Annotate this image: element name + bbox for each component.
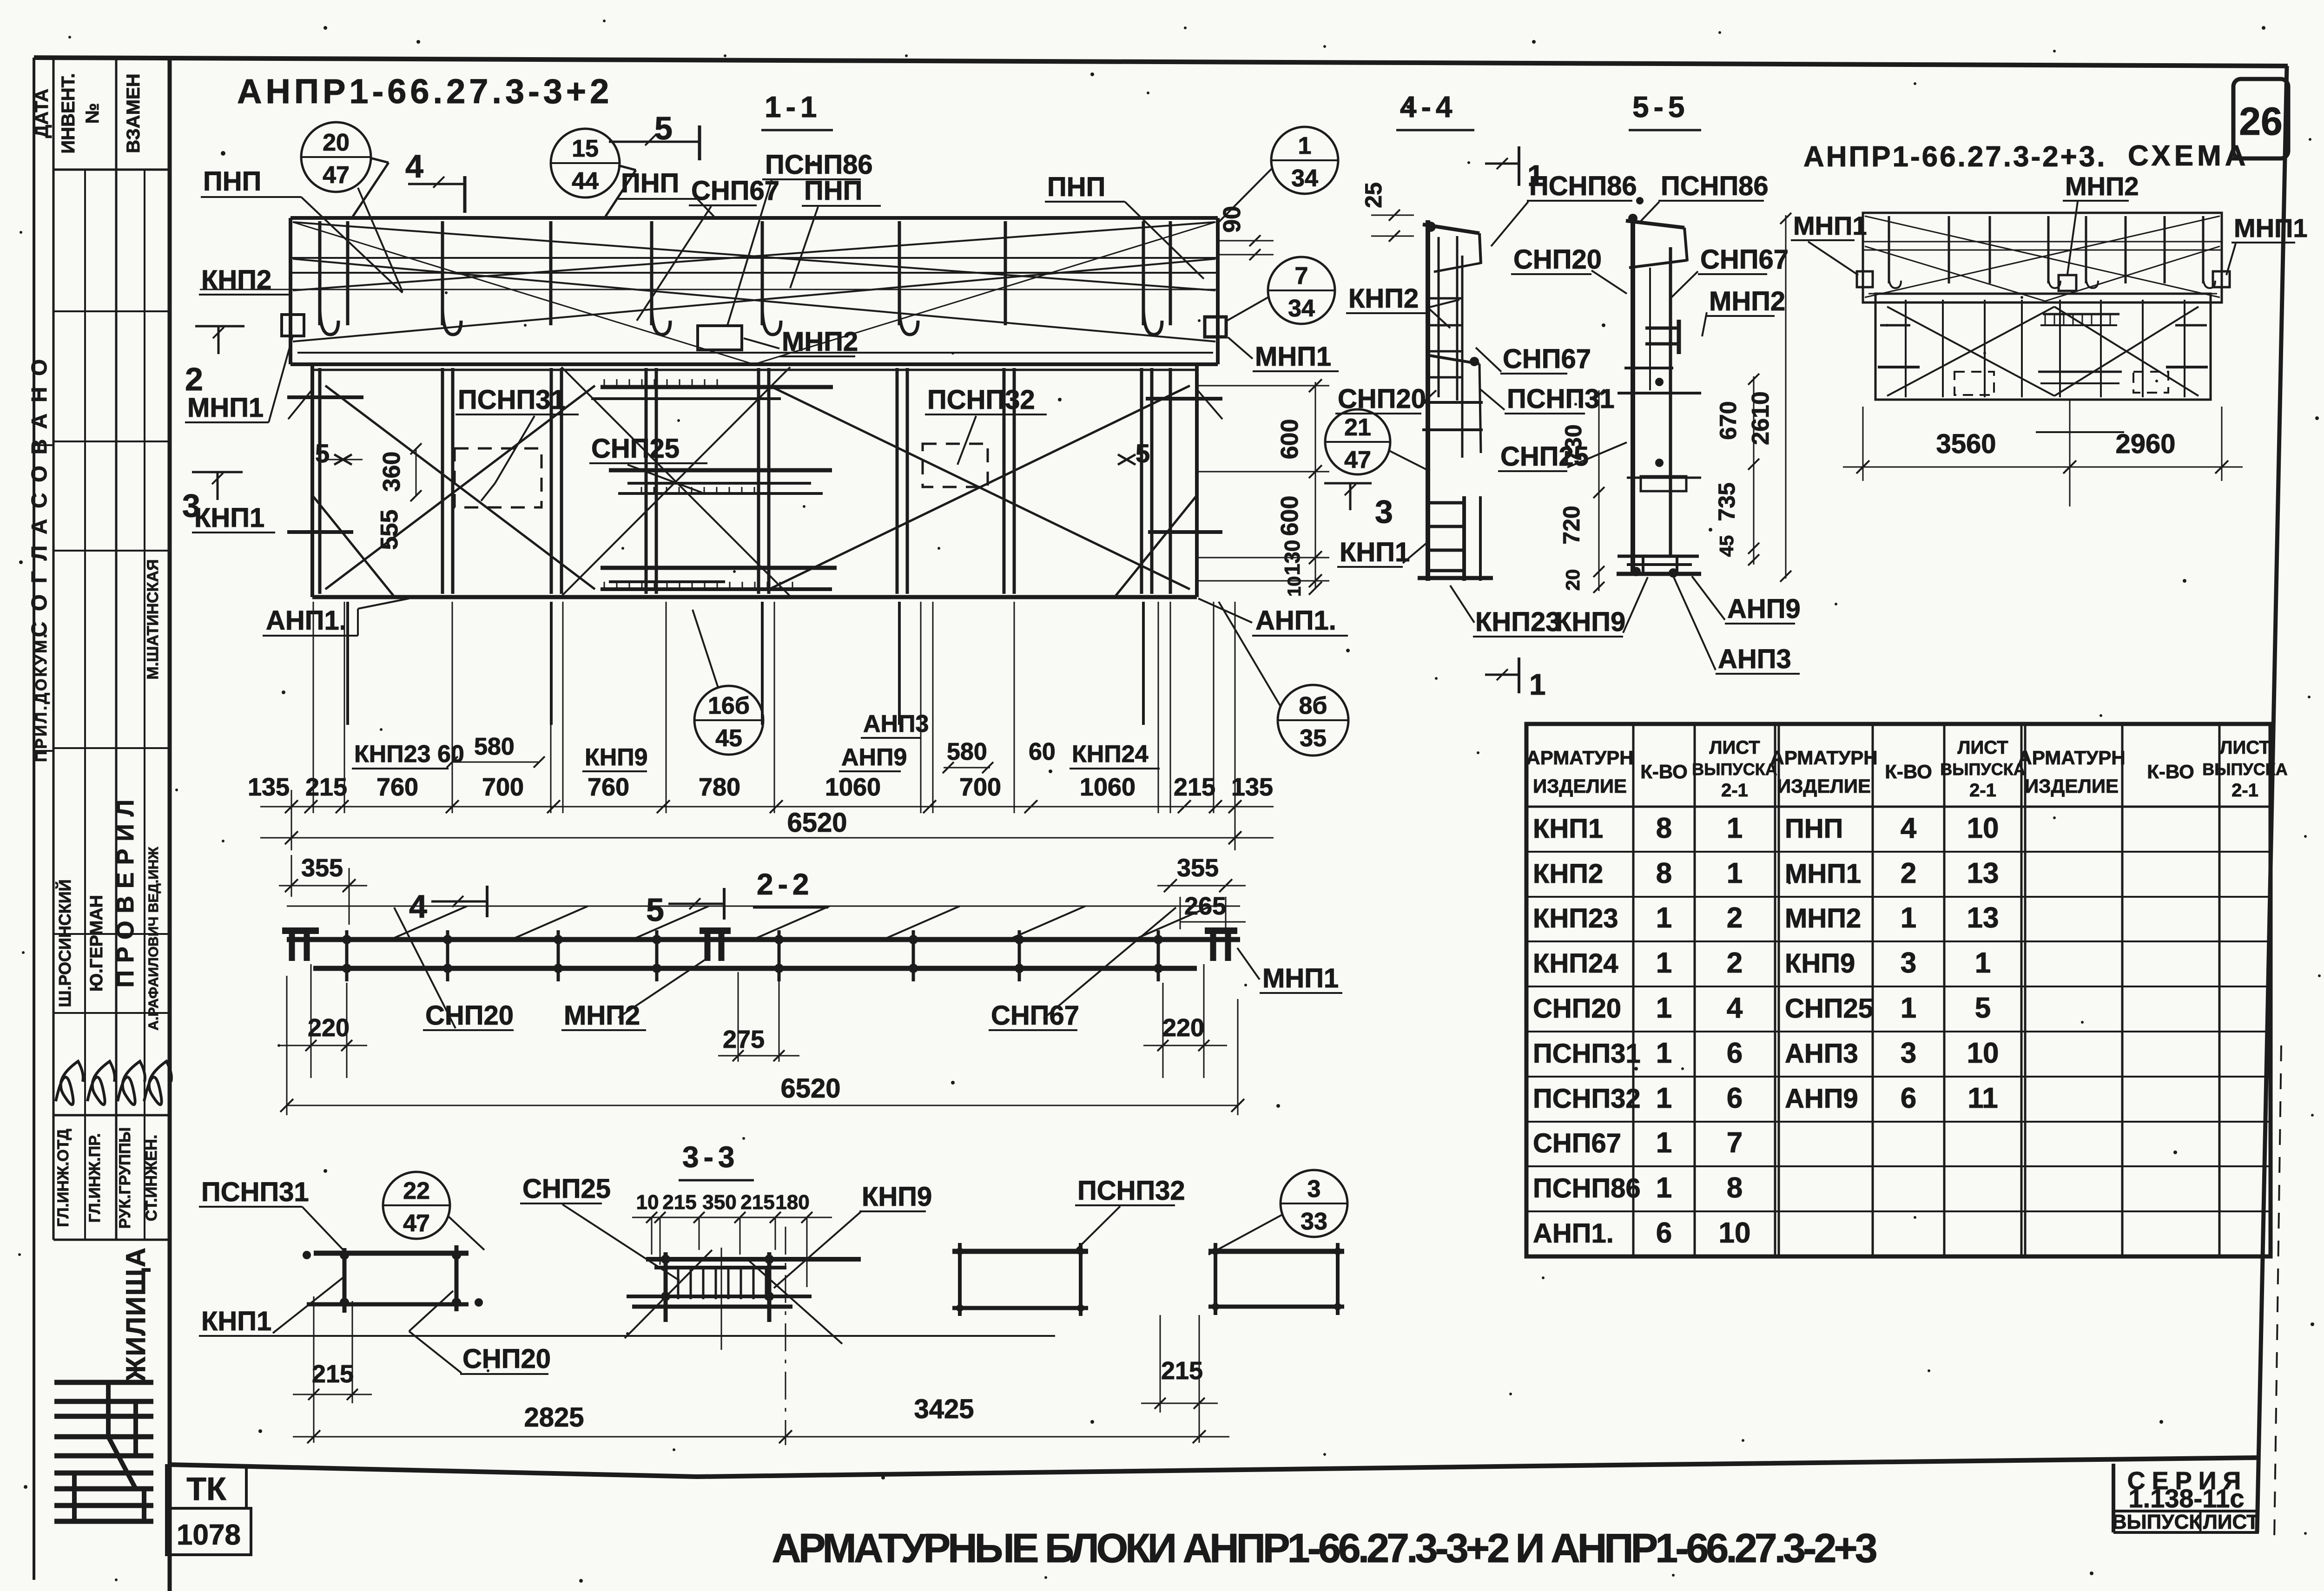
ПСНП31 dashed box [455, 448, 541, 507]
3-3 piece 4 [1208, 1249, 1344, 1254]
2-2 left МНП1 anchor [282, 927, 319, 934]
schema upper band [1863, 213, 2222, 302]
circle 21/47 4-4 [1325, 409, 1390, 474]
svg-text:ПНП: ПНП [804, 176, 862, 206]
svg-text:СНП20: СНП20 [425, 1000, 514, 1031]
svg-text:АНП1.: АНП1. [1533, 1218, 1614, 1249]
svg-text:АРМАТУРНЫЕ БЛОКИ АНПР1-66.27.3: АРМАТУРНЫЕ БЛОКИ АНПР1-66.27.3-3+2 И АНП… [772, 1525, 1876, 1571]
svg-text:1: 1 [1656, 1127, 1672, 1159]
svg-text:МНП1: МНП1 [1785, 859, 1861, 889]
schema lower verticals [1905, 300, 1907, 397]
svg-text:10: 10 [1967, 1037, 1999, 1069]
svg-text:2-1: 2-1 [2232, 780, 2258, 801]
svg-text:СНП67: СНП67 [1700, 244, 1789, 275]
svg-text:КНП2: КНП2 [1533, 859, 1603, 889]
svg-text:1078: 1078 [177, 1519, 241, 1551]
svg-text:1: 1 [1656, 1172, 1672, 1204]
svg-text:10: 10 [636, 1191, 659, 1214]
svg-text:ПСНП86: ПСНП86 [1529, 171, 1637, 201]
svg-text:ВЗАМЕН: ВЗАМЕН [123, 73, 144, 153]
svg-text:1: 1 [1975, 947, 1991, 979]
circle 7/34 [1268, 257, 1335, 324]
svg-text:2-2: 2-2 [757, 868, 814, 901]
svg-text:ИЗДЕЛИЕ: ИЗДЕЛИЕ [1533, 775, 1627, 797]
svg-text:М.ШАТИНСКАЯ: М.ШАТИНСКАЯ [144, 559, 162, 680]
svg-text:СНП67: СНП67 [991, 1000, 1079, 1031]
svg-text:КНП9: КНП9 [1785, 948, 1855, 979]
svg-text:8б: 8б [1299, 692, 1327, 719]
schema small dashed boxes [1954, 372, 1994, 395]
svg-text:КНП9: КНП9 [585, 744, 648, 771]
svg-text:600: 600 [1276, 419, 1303, 460]
NIIEP logo stripes [54, 1380, 153, 1385]
svg-text:45: 45 [715, 725, 742, 752]
svg-text:ГЛ.ИНЖ.ПР.: ГЛ.ИНЖ.ПР. [86, 1133, 104, 1223]
schema anchor squares [1857, 271, 1873, 287]
svg-text:МНП1: МНП1 [1262, 963, 1339, 993]
svg-text:СОГЛАСОВАНО: СОГЛАСОВАНО [27, 348, 51, 637]
svg-text:3-3: 3-3 [682, 1140, 739, 1174]
2-2 web verticals with welds [345, 930, 349, 981]
svg-text:ИНВЕНТ.: ИНВЕНТ. [58, 73, 79, 153]
svg-text:ПРОВЕРИЛ: ПРОВЕРИЛ [112, 792, 139, 988]
svg-text:МНП2: МНП2 [1709, 286, 1785, 316]
svg-text:ИЗДЕЛИЕ: ИЗДЕЛИЕ [1777, 775, 1871, 797]
svg-text:МНП2: МНП2 [564, 1000, 640, 1031]
СЕРИЯ box [2112, 1464, 2115, 1532]
svg-text:1: 1 [1727, 857, 1743, 889]
svg-text:2825: 2825 [524, 1402, 584, 1433]
svg-text:АРМАТУРН: АРМАТУРН [1526, 747, 1633, 769]
lower band right edge bars [1146, 397, 1222, 401]
svg-text:МНП2: МНП2 [782, 327, 858, 357]
svg-text:КНП9: КНП9 [862, 1182, 932, 1212]
svg-text:ЛИСТ: ЛИСТ [1957, 737, 2008, 758]
svg-text:555: 555 [376, 510, 403, 550]
5-5 dim chain right 670 735 45 [1753, 376, 1755, 565]
2-2 top chord [287, 937, 1240, 942]
page frame left border [33, 58, 35, 1580]
svg-text:3: 3 [1375, 493, 1393, 530]
svg-text:90: 90 [1219, 206, 1246, 233]
svg-text:ЛИСТ: ЛИСТ [2203, 1511, 2259, 1533]
svg-text:АНП1.: АНП1. [266, 605, 347, 636]
svg-text:670: 670 [1715, 401, 1741, 440]
4-4 КНП23 ladder bottom [1418, 576, 1493, 580]
3-3 piece 1 [314, 1251, 469, 1256]
svg-text:215: 215 [305, 773, 347, 801]
svg-text:60: 60 [1029, 738, 1056, 765]
2-2 parallel web ties [390, 906, 467, 940]
svg-text:КНП1: КНП1 [1340, 537, 1410, 567]
svg-text:13: 13 [1967, 857, 1999, 889]
circle 22/47 3-3 [383, 1172, 450, 1239]
svg-text:6520: 6520 [787, 808, 847, 838]
4-4 ladder rungs [1428, 297, 1462, 300]
2-2 right МНП1 anchor [1205, 927, 1237, 934]
svg-text:760: 760 [588, 773, 629, 801]
svg-text:1.138-11с: 1.138-11с [2128, 1484, 2244, 1513]
svg-text:47: 47 [1344, 447, 1371, 473]
svg-text:А.РАФАИЛОВИЧ ВЕД.ИНЖ: А.РАФАИЛОВИЧ ВЕД.ИНЖ [146, 847, 161, 1031]
circle 15/44 [551, 129, 620, 197]
svg-text:2: 2 [1727, 902, 1743, 934]
lower band central diagonals [561, 367, 790, 596]
svg-text:1060: 1060 [825, 773, 881, 801]
svg-text:№: № [82, 103, 103, 124]
circle 8б/35 [1278, 685, 1348, 756]
svg-text:МНП1: МНП1 [1793, 211, 1867, 240]
svg-text:1: 1 [1901, 992, 1916, 1024]
svg-text:МНП2: МНП2 [1785, 903, 1861, 934]
svg-text:КНП2: КНП2 [201, 265, 271, 295]
svg-text:220: 220 [1162, 1014, 1204, 1042]
svg-text:215: 215 [662, 1191, 696, 1214]
svg-text:34: 34 [1291, 165, 1318, 192]
svg-text:АНП1.: АНП1. [1255, 605, 1336, 636]
lower band X bracing right [769, 386, 1190, 589]
svg-text:5: 5 [1136, 439, 1150, 468]
svg-text:35: 35 [1300, 725, 1327, 752]
section mark 3 4-4 [1324, 482, 1372, 485]
svg-text:22: 22 [403, 1177, 430, 1204]
svg-text:355: 355 [301, 854, 343, 882]
svg-text:47: 47 [323, 162, 350, 189]
lower band rebars [318, 368, 322, 594]
svg-text:КНП1: КНП1 [1533, 814, 1603, 844]
svg-text:ПСНП86: ПСНП86 [1661, 171, 1769, 201]
svg-text:21: 21 [1344, 414, 1371, 441]
svg-text:КНП23: КНП23 [1475, 607, 1561, 637]
total dim 6520 [260, 837, 1274, 839]
МНП2 plate [698, 326, 742, 350]
4-4 element body [1426, 220, 1430, 581]
stamp col1 dividers [34, 444, 53, 446]
svg-text:5: 5 [315, 439, 330, 468]
svg-text:СНП25: СНП25 [522, 1174, 611, 1204]
svg-text:16б: 16б [708, 692, 750, 719]
parts table [1526, 724, 2271, 1256]
svg-text:ЖИЛИЩА: ЖИЛИЩА [121, 1247, 151, 1381]
plan upper band diagonals [293, 222, 1215, 290]
svg-text:44: 44 [572, 168, 599, 195]
5-5 МНП2 bars [1645, 327, 1680, 330]
svg-text:КНП2: КНП2 [1348, 283, 1419, 314]
schema lower band [1875, 294, 2211, 400]
svg-text:МНП1: МНП1 [1255, 342, 1331, 372]
svg-text:АРМАТУРН: АРМАТУРН [1770, 747, 1877, 769]
СНП25 mesh bars top [601, 385, 833, 389]
circle 1/34 [1271, 127, 1338, 194]
svg-text:2-1: 2-1 [1969, 780, 1996, 801]
svg-text:КНП24: КНП24 [1533, 948, 1618, 979]
svg-text:АНП9: АНП9 [1727, 594, 1801, 624]
svg-text:5: 5 [646, 892, 664, 928]
svg-text:ВЫПУСКА: ВЫПУСКА [1692, 760, 1777, 779]
svg-text:20: 20 [323, 129, 350, 156]
svg-text:КНП23 60: КНП23 60 [354, 741, 464, 768]
1078 box [166, 1508, 251, 1555]
5-5 middle details [1624, 367, 1673, 369]
TK box [166, 1466, 246, 1508]
dashed outer right margin [2274, 1045, 2281, 1540]
svg-text:Ю.ГЕРМАН: Ю.ГЕРМАН [87, 895, 106, 992]
schema upper diagonals [1865, 216, 2220, 297]
lower band chamfers [312, 495, 395, 597]
svg-text:1: 1 [1656, 1082, 1672, 1114]
svg-text:К-ВО: К-ВО [1885, 761, 1932, 782]
lower band X bracing left [325, 386, 595, 589]
svg-text:8: 8 [1656, 812, 1672, 844]
svg-text:МНП1: МНП1 [2234, 213, 2307, 243]
stamp strip row lines [53, 169, 170, 171]
svg-text:700: 700 [959, 773, 1001, 801]
svg-text:КНП1: КНП1 [194, 503, 264, 533]
svg-text:ПНП: ПНП [1785, 814, 1843, 844]
plan upper band rebars [318, 221, 322, 325]
svg-text:КНП24: КНП24 [1072, 741, 1149, 768]
svg-text:СНП20: СНП20 [1533, 993, 1621, 1024]
plan lower band outline [310, 364, 314, 597]
svg-text:2: 2 [185, 361, 203, 397]
svg-text:350: 350 [702, 1191, 736, 1214]
СНП25 mesh bars middle [609, 468, 832, 473]
svg-text:ПСНП31: ПСНП31 [201, 1177, 309, 1207]
2-2 center МНП2 anchor [700, 927, 731, 934]
svg-text:1060: 1060 [1080, 773, 1136, 801]
section mark 3 left [192, 471, 243, 473]
svg-text:2610: 2610 [1747, 391, 1774, 445]
svg-text:ПСНП86: ПСНП86 [1533, 1173, 1641, 1203]
svg-text:33: 33 [1301, 1208, 1327, 1235]
svg-text:ВЫПУСКА: ВЫПУСКА [2202, 760, 2287, 779]
svg-text:34: 34 [1288, 295, 1315, 322]
svg-text:ВЫПУСК: ВЫПУСК [2112, 1511, 2202, 1533]
svg-text:ДАТА: ДАТА [32, 89, 52, 138]
svg-text:ПСНП31: ПСНП31 [458, 385, 566, 415]
svg-text:КНП23: КНП23 [1533, 903, 1618, 934]
schema mesh hatches [2043, 313, 2119, 316]
svg-text:180: 180 [775, 1191, 809, 1214]
svg-text:МНП1: МНП1 [187, 393, 264, 423]
svg-text:2960: 2960 [2115, 429, 2175, 459]
svg-text:215: 215 [740, 1191, 774, 1214]
svg-text:760: 760 [376, 773, 418, 801]
stamp strip right heavy border [168, 58, 172, 1591]
svg-text:6: 6 [1727, 1082, 1743, 1114]
svg-text:135: 135 [248, 773, 290, 801]
svg-text:1: 1 [1656, 902, 1672, 934]
svg-text:735: 735 [1714, 482, 1740, 521]
svg-text:1: 1 [1656, 1037, 1672, 1069]
2-2 upper reference line [287, 906, 1240, 907]
svg-text:ВЫПУСКА: ВЫПУСКА [1940, 760, 2025, 779]
svg-text:СНП20: СНП20 [462, 1344, 551, 1374]
svg-text:КНП9: КНП9 [1555, 607, 1625, 637]
svg-text:360: 360 [378, 452, 405, 492]
svg-text:11: 11 [1967, 1082, 1998, 1114]
svg-text:135: 135 [1231, 773, 1273, 801]
svg-text:275: 275 [723, 1026, 765, 1053]
svg-text:СНП25: СНП25 [1785, 993, 1873, 1024]
svg-text:2: 2 [1901, 857, 1916, 889]
svg-text:1: 1 [1656, 947, 1672, 979]
svg-text:АРМАТУРН: АРМАТУРН [2018, 747, 2125, 769]
dimension line 135..135 [260, 806, 1274, 808]
svg-text:7: 7 [1727, 1127, 1743, 1159]
schema upper band rebars [1888, 216, 1890, 283]
svg-text:ЛИСТ: ЛИСТ [2219, 737, 2270, 758]
svg-text:45: 45 [1716, 535, 1737, 557]
svg-text:215: 215 [312, 1360, 354, 1388]
svg-text:13: 13 [1967, 902, 1999, 934]
svg-text:1: 1 [1656, 992, 1672, 1024]
svg-text:ПНП: ПНП [203, 166, 261, 197]
svg-text:ИЗДЕЛИЕ: ИЗДЕЛИЕ [2025, 775, 2119, 797]
stamp strip column lines [53, 58, 55, 1240]
5-5 bottom [1618, 555, 1699, 558]
svg-text:СНП67: СНП67 [691, 176, 779, 206]
svg-text:720: 720 [1558, 506, 1585, 544]
svg-text:1: 1 [1529, 668, 1546, 701]
svg-text:СНП67: СНП67 [1503, 344, 1591, 374]
vertical dim chain 600 600 130 10 [1315, 382, 1316, 589]
signature squiggles [56, 1061, 83, 1104]
МНП1 anchor square right [1205, 317, 1226, 337]
circle 20/47 [301, 122, 371, 192]
svg-text:5: 5 [1975, 992, 1991, 1024]
svg-text:580: 580 [947, 738, 987, 765]
svg-text:ПСНП32: ПСНП32 [927, 385, 1035, 415]
svg-text:20: 20 [1562, 569, 1584, 591]
svg-text:АНП3: АНП3 [863, 710, 929, 737]
svg-text:АНП9: АНП9 [1785, 1084, 1858, 1114]
svg-text:220: 220 [308, 1014, 350, 1042]
svg-text:3: 3 [1901, 947, 1916, 979]
svg-text:25: 25 [1360, 182, 1386, 208]
svg-text:600: 600 [1276, 496, 1303, 536]
plan band double bottom line [312, 369, 1197, 371]
schema lower X bracing [1887, 307, 2054, 396]
svg-text:8: 8 [1656, 857, 1672, 889]
svg-text:АНПР1-66.27.3-3+2: АНПР1-66.27.3-3+2 [237, 72, 613, 111]
lower band left edge bars [287, 395, 363, 399]
svg-text:580: 580 [474, 733, 515, 760]
svg-text:6520: 6520 [780, 1073, 840, 1104]
circle 3/33 3-3 [1281, 1170, 1347, 1237]
svg-text:ПНП: ПНП [621, 168, 679, 198]
svg-text:К-ВО: К-ВО [1640, 761, 1688, 782]
svg-text:3560: 3560 [1936, 429, 1996, 459]
svg-text:730: 730 [1560, 424, 1586, 463]
plan upper band outline [290, 216, 1218, 220]
svg-text:215: 215 [1161, 1357, 1203, 1385]
5-5 dim 2610 [1785, 215, 1787, 579]
svg-text:АНП3: АНП3 [1785, 1039, 1858, 1069]
svg-text:355: 355 [1177, 854, 1219, 882]
projection lines to dim line [313, 602, 314, 813]
schema edge bars [1878, 366, 1920, 368]
svg-text:АНП9: АНП9 [841, 744, 907, 771]
3-3 piece 3 [952, 1249, 1088, 1254]
svg-text:1: 1 [1298, 132, 1312, 159]
svg-text:Ш.РОСИНСКИЙ: Ш.РОСИНСКИЙ [55, 879, 74, 1007]
svg-text:10: 10 [1967, 812, 1999, 844]
scan specks [416, 40, 420, 44]
svg-text:6: 6 [1901, 1082, 1916, 1114]
svg-text:6: 6 [1727, 1037, 1743, 1069]
svg-text:АНП3: АНП3 [1718, 644, 1791, 674]
svg-text:130: 130 [1280, 540, 1304, 576]
svg-text:6: 6 [1656, 1217, 1672, 1249]
3-3 center axis [785, 1227, 786, 1445]
svg-text:СХЕМА: СХЕМА [2128, 140, 2250, 172]
svg-text:ЛИСТ: ЛИСТ [1709, 737, 1760, 758]
svg-text:КНП1: КНП1 [201, 1306, 271, 1336]
svg-text:15: 15 [572, 135, 599, 162]
svg-text:СНП67: СНП67 [1533, 1128, 1621, 1158]
svg-text:ПСНП32: ПСНП32 [1077, 1176, 1185, 1206]
4-4 ПСНП31 hook step [1429, 355, 1479, 364]
СНП25 mesh bars bottom [601, 566, 837, 570]
svg-text:2-1: 2-1 [1721, 780, 1748, 801]
5-5 dim chain left 730 720 20 [1598, 390, 1600, 591]
svg-text:3: 3 [1901, 1037, 1916, 1069]
svg-text:700: 700 [482, 773, 524, 801]
schema hooks [1889, 279, 1901, 288]
svg-text:4: 4 [405, 148, 423, 184]
bottom heavy line above title strip [170, 1458, 2260, 1477]
svg-text:ТК: ТК [186, 1471, 226, 1507]
svg-text:2: 2 [1727, 947, 1743, 979]
svg-text:4: 4 [1727, 992, 1743, 1024]
svg-text:4: 4 [1901, 812, 1917, 844]
2-2 bottom chord [313, 966, 1197, 971]
svg-text:РУК.ГРУППЫ: РУК.ГРУППЫ [116, 1127, 134, 1229]
svg-text:47: 47 [403, 1210, 430, 1237]
svg-text:МНП2: МНП2 [2065, 171, 2139, 201]
КНП2 long reference line [200, 289, 1217, 290]
svg-text:3: 3 [1307, 1176, 1321, 1203]
svg-text:ПРИЛ.ДОКУМ.: ПРИЛ.ДОКУМ. [33, 632, 50, 762]
svg-text:10: 10 [1284, 576, 1305, 597]
svg-text:215: 215 [1174, 773, 1215, 801]
svg-text:ПСНП32: ПСНП32 [1533, 1084, 1641, 1114]
МНП1 anchor square left [282, 315, 304, 336]
rebar hooks [320, 310, 338, 335]
svg-text:26: 26 [2239, 99, 2282, 143]
page number 26 box [2233, 79, 2288, 158]
svg-text:7: 7 [1295, 263, 1308, 289]
svg-text:8: 8 [1727, 1172, 1743, 1204]
svg-text:3425: 3425 [914, 1394, 974, 1424]
circle 16б/45 [694, 686, 763, 755]
svg-text:ГЛ.ИНЖ.ОТД: ГЛ.ИНЖ.ОТД [54, 1129, 72, 1227]
schema dim 3560 2960 [1862, 407, 1864, 481]
svg-text:1: 1 [1901, 902, 1916, 934]
svg-text:СНП25: СНП25 [591, 434, 680, 464]
page frame right border [2257, 66, 2287, 1532]
svg-text:СТ.ИНЖЕН.: СТ.ИНЖЕН. [143, 1135, 160, 1222]
svg-text:5-5: 5-5 [1632, 90, 1690, 124]
svg-text:АНПР1-66.27.3-2+3.: АНПР1-66.27.3-2+3. [1803, 141, 2107, 173]
svg-text:780: 780 [699, 773, 740, 801]
3-3 piece 2 with КНП9 ladder [646, 1257, 861, 1262]
5-5 element body [1631, 218, 1635, 576]
svg-text:К-ВО: К-ВО [2147, 761, 2194, 782]
svg-text:ПСНП31: ПСНП31 [1533, 1039, 1641, 1069]
svg-text:СНП20: СНП20 [1513, 244, 1602, 275]
